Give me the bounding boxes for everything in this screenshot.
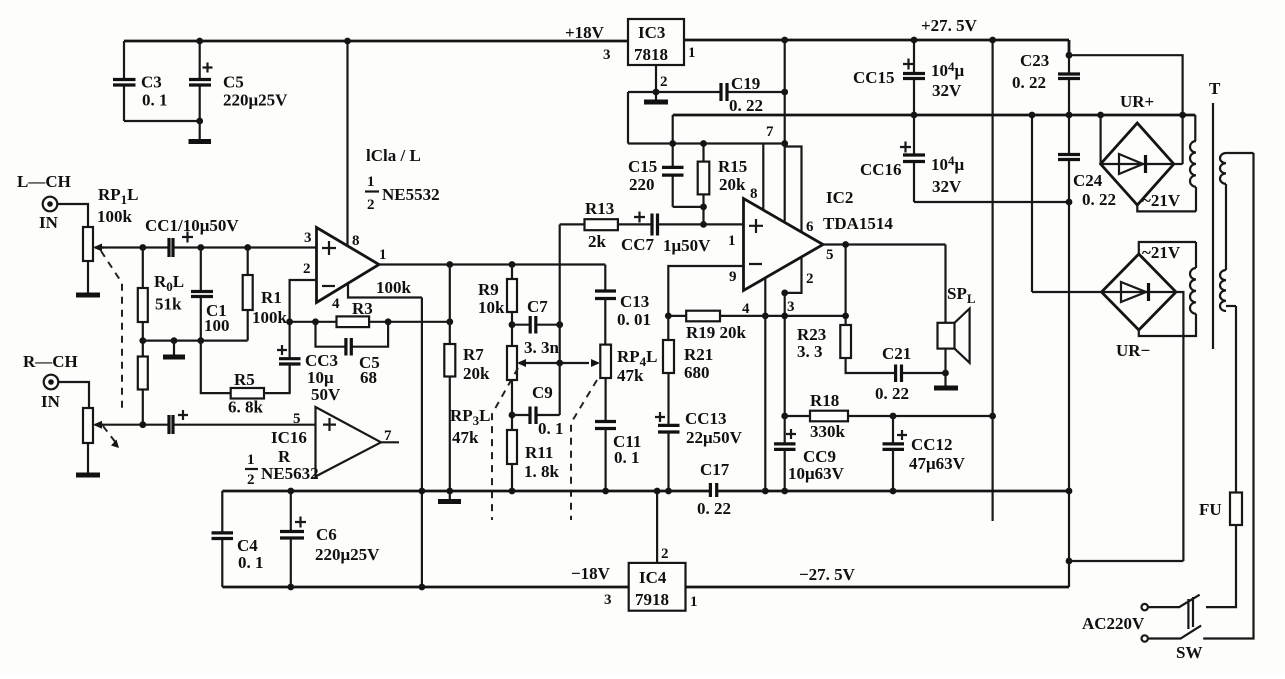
IC16 half NE5532 label (245, 452, 319, 488)
wire y115 rail corner down to rail A (672, 115, 674, 144)
op-amp IC1a triangle (317, 228, 380, 303)
svg-text:R19 20k: R19 20k (686, 323, 747, 342)
node branch at y115 (1179, 112, 1186, 119)
svg-text:8: 8 (352, 233, 360, 249)
node R18 right CC12 top (890, 413, 897, 420)
svg-text:330k: 330k (810, 422, 846, 441)
svg-text:8: 8 (750, 186, 758, 202)
wire UR- feed (1069, 560, 1183, 562)
node R0L top (139, 244, 146, 251)
capacitor C19 (721, 74, 763, 115)
wire CC7 to IC2 pin1 (658, 223, 744, 225)
wire C15 R15 bottom line (673, 207, 704, 225)
UR+ right vertex stub (1174, 163, 1183, 165)
top rail corner into C23 column (1068, 40, 1071, 55)
node pin4 at R19 line (762, 313, 769, 320)
svg-text:5: 5 (826, 247, 834, 263)
svg-text:C7: C7 (527, 297, 548, 316)
resistor R23 (797, 325, 896, 373)
svg-text:0. 22: 0. 22 (729, 96, 763, 115)
svg-text:20k: 20k (719, 175, 746, 194)
node CC12 at ground rail (890, 488, 897, 495)
resistor R18 (810, 391, 848, 441)
node C15/R15 drop on pin1 wire (700, 221, 707, 228)
resistor R0L (138, 248, 184, 341)
resistor R11 (507, 430, 560, 491)
R3 rail wire (290, 321, 450, 323)
dashed gang link RP4 (571, 380, 597, 520)
node speaker/C21 junction (942, 370, 949, 377)
pin 2 wire IC3 (655, 65, 657, 92)
minus input mark IC2 (749, 263, 762, 265)
capacitor CC7 (634, 212, 658, 236)
svg-text:2: 2 (661, 546, 669, 562)
svg-text:47μ63V: 47μ63V (909, 454, 966, 473)
long V- wire down to -18V rail (421, 298, 423, 588)
node C15 top on rail A (669, 140, 676, 147)
pin 4 stub and V- feedback corner (348, 284, 422, 298)
svg-text:100k: 100k (376, 278, 412, 297)
node column at ground rail (1066, 488, 1073, 495)
plus input mark IC16 (323, 418, 336, 431)
svg-text:2k: 2k (588, 232, 607, 251)
svg-text:CC15: CC15 (853, 68, 895, 87)
svg-text:SW: SW (1176, 643, 1202, 662)
fuse FU wire (1235, 306, 1237, 493)
resistor R0R (138, 341, 148, 425)
capacitor C5b 68 across R3 (316, 322, 389, 387)
svg-text:3: 3 (787, 299, 795, 315)
primary winding (1220, 153, 1254, 311)
wire drop from C19 line to rail A (627, 92, 629, 144)
resistor R3 (337, 299, 373, 327)
svg-text:~21V: ~21V (1142, 191, 1181, 210)
node C5b right on R3 rail (385, 318, 392, 325)
node R19 right at output column (842, 313, 849, 320)
long vertical from top rail (991, 40, 993, 521)
svg-text:C21: C21 (882, 344, 911, 363)
svg-text:L—CH: L—CH (17, 172, 71, 191)
capacitor CC16 electrolytic (860, 115, 965, 202)
svg-text:CC12: CC12 (911, 435, 953, 454)
wire y115 down to UR+ left vertex (1099, 115, 1101, 164)
node IC3 pin2 (653, 89, 660, 96)
R-CH connector (44, 375, 59, 390)
svg-text:R9: R9 (478, 280, 499, 299)
+27.5V distribution rail y115 (673, 114, 1196, 117)
resistor R15 (698, 144, 748, 207)
svg-text:CC1/10μ50V: CC1/10μ50V (145, 216, 239, 235)
capacitor CC3 electrolytic (277, 322, 341, 404)
svg-text:1: 1 (367, 174, 375, 190)
node R0L bottom (139, 337, 146, 344)
svg-text:10μ63V: 10μ63V (788, 464, 845, 483)
svg-text:C9: C9 (532, 383, 553, 402)
capacitor CC2 (169, 410, 188, 434)
wire R13 line from column (560, 223, 585, 225)
svg-text:TDA1514: TDA1514 (823, 214, 893, 233)
svg-text:47k: 47k (617, 366, 644, 385)
svg-text:C23: C23 (1020, 51, 1049, 70)
node R1 top (244, 244, 251, 251)
svg-text:6. 8k: 6. 8k (228, 398, 264, 417)
svg-text:+18V: +18V (565, 23, 605, 42)
svg-text:C19: C19 (731, 74, 760, 93)
capacitor C6 electrolytic (280, 491, 380, 587)
svg-text:R3: R3 (352, 299, 373, 318)
input wire R to IC16 pin5 (95, 424, 316, 426)
svg-text:NE5532: NE5532 (382, 185, 440, 204)
svg-text:20k: 20k (463, 364, 490, 383)
svg-text:2: 2 (367, 197, 375, 213)
capacitor C13 (595, 291, 651, 345)
potentiometer RP1 R (83, 408, 104, 443)
svg-text:220: 220 (629, 175, 655, 194)
svg-text:220μ25V: 220μ25V (223, 91, 288, 110)
svg-text:lCla / L: lCla / L (366, 146, 421, 165)
ground under C5 (189, 121, 212, 142)
ground under R7 (438, 491, 461, 502)
svg-text:7918: 7918 (635, 590, 669, 609)
capacitor CC13 electrolytic (655, 409, 743, 491)
bridge rectifier UR- (1102, 254, 1177, 360)
svg-text:6: 6 (806, 219, 814, 235)
svg-text:T: T (1209, 79, 1221, 98)
svg-text:RP1L: RP1L (98, 185, 139, 207)
svg-text:1μ50V: 1μ50V (663, 236, 711, 255)
pin 9 wire IC2 (668, 266, 743, 316)
svg-text:1: 1 (728, 233, 736, 249)
wire connector to pot RP1R (58, 382, 89, 408)
capacitor C17 in rail (697, 460, 731, 518)
capacitor C15 (628, 144, 684, 207)
resistor R21 (663, 316, 713, 425)
C23 C24 column vertical (1068, 55, 1070, 587)
node R9 bottom C7 left (509, 321, 516, 328)
node pin7 on top rail (781, 37, 788, 44)
node V- at -18V rail (419, 584, 426, 591)
svg-text:0. 1: 0. 1 (538, 419, 564, 438)
node pin8 on top rail (344, 38, 351, 45)
wire output column to R23 (844, 245, 846, 326)
resistor R19 (686, 311, 747, 342)
pin 3 wire down (784, 293, 786, 416)
svg-text:1: 1 (379, 247, 387, 263)
top +18V rail left of IC3 (124, 40, 628, 43)
op-amp IC2 TDA1514 triangle (744, 199, 824, 291)
node V- crossing dot at ground rail (419, 488, 426, 495)
capacitor C1 (191, 248, 230, 341)
IC3 7818 regulator (628, 19, 684, 65)
node R15 bottom (700, 204, 707, 211)
fuse FU (1199, 493, 1242, 526)
node C9 left (509, 412, 516, 419)
ground on C1 rail (163, 341, 185, 357)
UR+ bottom vertex to coil (1137, 205, 1196, 211)
svg-text:100k: 100k (252, 308, 288, 327)
speaker SPL wire down (944, 245, 946, 323)
wire FU to switch (1206, 525, 1236, 607)
svg-text:IC4: IC4 (639, 568, 667, 587)
node +27.5 branch (1066, 52, 1073, 59)
svg-text:0. 22: 0. 22 (875, 384, 909, 403)
node IC4 pin2 at ground rail (654, 488, 661, 495)
capacitor CC9 electrolytic (774, 416, 845, 491)
resistor R9 (478, 265, 517, 347)
node pin7 at rail A (781, 140, 788, 147)
svg-text:4: 4 (742, 301, 750, 317)
node pin9/R21 junction (665, 313, 672, 320)
IC1a half NE5532 label (365, 174, 440, 213)
svg-text:R—CH: R—CH (23, 352, 78, 371)
ground under speaker (934, 373, 958, 388)
svg-text:10k: 10k (478, 298, 505, 317)
wire connector to pot RP1L (57, 204, 88, 227)
pin 7 wire from top rail (784, 40, 786, 221)
speaker SPL (938, 284, 976, 373)
svg-text:0. 1: 0. 1 (142, 91, 168, 110)
svg-text:IC3: IC3 (638, 23, 665, 42)
node C5b left on R3 rail (312, 318, 319, 325)
wire UR- feed column (1031, 115, 1033, 292)
node UR- column on y115 (1029, 112, 1036, 119)
op-amp IC16 triangle (316, 407, 382, 477)
svg-text:C24: C24 (1073, 171, 1103, 190)
node R18 left CC9 top (781, 413, 788, 420)
svg-text:50V: 50V (311, 385, 341, 404)
svg-text:1: 1 (690, 594, 698, 610)
capacitor C9 (512, 383, 564, 438)
input wire L to op-amp pin3 (95, 246, 317, 248)
wire RP3 bottom (511, 380, 513, 430)
node pin3 at R19 line (781, 313, 788, 320)
node C1 bottom (197, 337, 204, 344)
resistor R1 (243, 248, 288, 341)
svg-text:4: 4 (332, 296, 340, 312)
potentiometer RP4 (600, 345, 657, 385)
svg-text:3: 3 (304, 230, 312, 246)
column wire C7right-wiper-C9right (559, 224, 561, 415)
svg-text:0. 22: 0. 22 (1082, 190, 1116, 209)
svg-text:−18V: −18V (571, 564, 611, 583)
wire pot R bottom to ground (87, 443, 89, 473)
node pin2/pin3 junction (781, 290, 788, 297)
svg-text:32V: 32V (932, 81, 962, 100)
svg-text:5: 5 (293, 411, 301, 427)
node CC16 line at C24 column (1066, 199, 1073, 206)
wire C1 bottom rail (143, 340, 248, 342)
svg-text:R1: R1 (261, 288, 282, 307)
svg-text:22μ50V: 22μ50V (686, 428, 743, 447)
node C5 bottom (196, 118, 203, 125)
switch SW (1142, 595, 1203, 662)
svg-text:220μ25V: 220μ25V (315, 545, 380, 564)
svg-text:2: 2 (247, 472, 255, 488)
capacitor C21 (875, 344, 946, 403)
node R7 at ground rail (446, 488, 453, 495)
node column at UR- feed (1066, 558, 1073, 565)
ground under RP1L (76, 293, 100, 298)
capacitor CC1 (169, 232, 193, 258)
wire C3-C5 bottom (124, 120, 200, 122)
svg-text:2: 2 (806, 271, 814, 287)
capacitor CC12 electrolytic (883, 416, 966, 491)
svg-text:UR−: UR− (1116, 341, 1150, 360)
transformer core T (1212, 103, 1214, 349)
node C1 top (197, 244, 204, 251)
svg-text:CC7: CC7 (621, 235, 655, 254)
svg-text:−27. 5V: −27. 5V (799, 565, 856, 584)
R5 feedback wire R channel (201, 341, 290, 394)
svg-text:3. 3n: 3. 3n (524, 338, 560, 357)
node R18 right end at long vertical (989, 413, 996, 420)
svg-text:51k: 51k (155, 295, 182, 314)
capacitor CC15 electrolytic (853, 40, 965, 115)
pin 4 wire IC2 (764, 279, 766, 491)
svg-text:104μ: 104μ (931, 153, 965, 174)
pin 8 wire IC1a (346, 41, 348, 246)
svg-text:FU: FU (1199, 500, 1222, 519)
svg-text:~21V: ~21V (1142, 243, 1181, 262)
svg-text:CC16: CC16 (860, 160, 902, 179)
svg-text:7: 7 (766, 124, 774, 140)
UR- top vertex to coil (1139, 242, 1196, 254)
svg-text:C13: C13 (620, 292, 649, 311)
pin 8 wire IC2 (762, 144, 764, 212)
svg-text:R7: R7 (463, 345, 484, 364)
ground under RP1R (76, 473, 100, 478)
potentiometer RP3 (450, 346, 526, 447)
dashed gang link RP1 (101, 251, 122, 410)
svg-text:C6: C6 (316, 525, 337, 544)
svg-text:0. 22: 0. 22 (1012, 73, 1046, 92)
UR- right vertex wire down (1176, 292, 1183, 561)
node CC15 bottom on y115 (911, 112, 918, 119)
wire R13 to CC7 (618, 223, 652, 225)
potentiometer RP1L (83, 227, 104, 261)
rail A (+18V distribution) (628, 142, 785, 144)
node R11 at ground rail (509, 488, 516, 495)
node output to R23 (842, 241, 849, 248)
svg-text:R11: R11 (525, 443, 553, 462)
svg-text:SPL: SPL (947, 284, 976, 306)
svg-text:1. 8k: 1. 8k (524, 462, 560, 481)
wire pot bottom to ground (87, 261, 89, 293)
IC16 output stub (381, 441, 399, 443)
capacitor C11 (595, 422, 641, 492)
svg-text:32V: 32V (932, 177, 962, 196)
ground at IC3 pin2 (644, 92, 668, 102)
capacitor C24 (1058, 155, 1116, 210)
node C6 top (287, 488, 294, 495)
resistor R13 (585, 199, 618, 251)
node output to R3/R7 column (446, 261, 453, 268)
IC4 pin2 wire (656, 491, 658, 563)
ground rail (222, 490, 1069, 493)
upper secondary winding (1190, 115, 1196, 211)
node C5 top on rail (196, 38, 203, 45)
svg-text:680: 680 (684, 363, 710, 382)
node pin2/CC3 on R3 rail (286, 318, 293, 325)
svg-text:0. 1: 0. 1 (238, 553, 264, 572)
node y115 at UR+ left drop (1097, 112, 1104, 119)
L-CH connector (43, 197, 58, 212)
svg-text:9: 9 (729, 269, 737, 285)
svg-text:IN: IN (39, 213, 59, 232)
CC16 bottom wire to C24 column (914, 201, 1069, 203)
svg-text:C3: C3 (141, 73, 162, 92)
svg-text:0. 01: 0. 01 (617, 310, 651, 329)
wire y292 to UR- left vertex (1032, 291, 1102, 293)
wire output column down (449, 265, 451, 345)
pin 2 wire IC1a (290, 280, 317, 322)
node R15 top on rail A (700, 140, 707, 147)
node output to R9 (509, 261, 516, 268)
svg-text:IC16: IC16 (271, 428, 307, 447)
node CC13 at ground rail (665, 488, 672, 495)
svg-text:RP3L: RP3L (450, 406, 491, 428)
IC2 output wire pin5 (823, 243, 946, 245)
bridge rectifier UR+ (1101, 92, 1174, 205)
svg-text:2: 2 (660, 74, 668, 90)
svg-text:1: 1 (247, 452, 255, 468)
plus input mark IC1a (322, 241, 336, 255)
IC4 7918 regulator (629, 563, 686, 611)
svg-text:0. 1: 0. 1 (614, 448, 640, 467)
pin 2 bracket wire (785, 258, 802, 293)
node C6 bottom (287, 584, 294, 591)
top +27.5V rail right of IC3 (684, 39, 1069, 42)
svg-text:C5: C5 (223, 73, 244, 92)
node CC9 at ground rail (781, 488, 788, 495)
svg-text:R0L: R0L (154, 272, 184, 294)
svg-text:3. 3: 3. 3 (797, 342, 823, 361)
svg-text:R21: R21 (684, 345, 713, 364)
plus input mark IC2 (749, 219, 763, 233)
svg-text:R13: R13 (585, 199, 614, 218)
node ground stub (171, 337, 178, 344)
wire C19 line (628, 91, 785, 93)
node C11 at ground rail (602, 488, 609, 495)
R18 line wire (785, 415, 993, 417)
capacitor C3 (113, 41, 168, 121)
node output column on R3 rail (446, 318, 453, 325)
svg-text:0. 22: 0. 22 (697, 499, 731, 518)
wire output corner into C13 (604, 265, 606, 292)
-18V rail (222, 586, 1069, 589)
wiper arrow into RP4 (591, 359, 600, 367)
svg-text:R15: R15 (718, 157, 747, 176)
svg-text:7818: 7818 (634, 45, 668, 64)
svg-text:104μ: 104μ (931, 59, 965, 80)
wiper link wire (526, 362, 589, 364)
wire switch lower throw to primary (1203, 153, 1253, 639)
capacitor C23 (1012, 51, 1080, 92)
R19 line wire (668, 315, 845, 317)
svg-text:3: 3 (603, 47, 611, 63)
capacitor C5 electrolytic (189, 41, 288, 121)
dashed gang link RP3 (492, 368, 518, 520)
svg-text:R18: R18 (810, 391, 839, 410)
svg-text:CC13: CC13 (685, 409, 727, 428)
node wiper column (556, 360, 563, 367)
capacitor C7 (512, 297, 560, 357)
svg-text:R5: R5 (234, 370, 255, 389)
svg-text:IN: IN (41, 392, 61, 411)
capacitor C4 (212, 491, 264, 587)
node long vertical on top rail (989, 37, 996, 44)
svg-text:+27. 5V: +27. 5V (921, 16, 978, 35)
